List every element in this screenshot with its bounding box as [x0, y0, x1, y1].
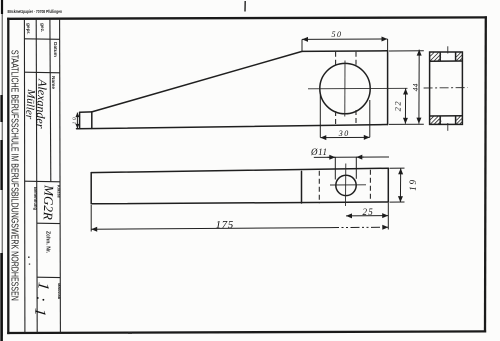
svg-text:50: 50 — [332, 30, 343, 39]
svg-text:Benennung: Benennung — [33, 187, 38, 210]
title block vertical line school-column — [24, 19, 60, 333]
bore circle D30 — [320, 63, 370, 113]
dimension 25 — [346, 215, 388, 217]
title block vertical line right edge — [59, 19, 62, 333]
ring inner top edge — [430, 60, 463, 62]
ring hole walls top — [439, 52, 441, 61]
svg-text:Müller: Müller — [23, 88, 37, 120]
left block right edge — [91, 112, 93, 128]
ring outer rect — [430, 52, 463, 124]
svg-text:gez.: gez. — [39, 23, 44, 32]
dimension 10 left block — [76, 113, 78, 129]
FRONT VIEW wedge part outline — [77, 51, 388, 129]
RING SECTION VIEW — [430, 52, 463, 124]
paper specks — [28, 257, 132, 334]
svg-text:19: 19 — [408, 178, 418, 191]
svg-text:25: 25 — [363, 207, 374, 217]
svg-text:STAATLICHE BERUFSSCHULE IM BER: STAATLICHE BERUFSSCHULE IM BERUFSBILDUNG… — [8, 50, 19, 301]
front view centerline vertical — [344, 61, 346, 117]
hidden D30 dashed tangent right — [369, 170, 371, 203]
wedge slope line — [92, 51, 302, 112]
extension line right shared 25/175 — [387, 203, 389, 230]
ring horizontal centerline dash-dot — [424, 87, 468, 89]
svg-text:Ø11: Ø11 — [310, 147, 328, 157]
dimension 30 below circle — [320, 95, 370, 138]
title block horizontal line below Klasse row — [37, 222, 61, 224]
boss edge line — [301, 171, 303, 203]
bar left edge — [90, 173, 92, 204]
svg-text:Maßstab: Maßstab — [57, 283, 62, 300]
left block left edge — [79, 112, 81, 128]
ring hatching — [430, 53, 463, 125]
bar bottom edge — [91, 202, 388, 204]
dimension 50 top — [302, 39, 388, 51]
dimension 22 — [404, 89, 406, 124]
extension line left for 175 — [90, 205, 92, 232]
title block vertical line benennung-column — [36, 19, 37, 333]
scanner left paper edge artifact — [1, 0, 4, 341]
registration tick mark top center — [244, 1, 246, 12]
dimension 175 — [91, 203, 388, 232]
left block top edge — [80, 111, 92, 113]
top edge — [302, 50, 388, 53]
hidden D30 dashed tangent left — [319, 170, 370, 203]
hole D11 circle top view — [336, 175, 356, 195]
hidden hole D11 dashed lines front view — [336, 52, 356, 125]
svg-text:Böckmetzpapier · 70708 Pfullin: Böckmetzpapier · 70708 Pfullingen — [8, 9, 63, 14]
title block horizontal line top of lower table — [25, 180, 60, 183]
TOP VIEW bar outline — [91, 168, 388, 204]
dimension 19 — [390, 168, 405, 202]
dimension 44 right — [389, 50, 424, 125]
svg-text:175: 175 — [216, 219, 234, 231]
svg-text:Datum: Datum — [52, 42, 58, 57]
right edge — [387, 51, 389, 125]
ring hole walls bottom — [439, 116, 441, 125]
svg-text:Zchn. Nr.: Zchn. Nr. — [45, 231, 51, 254]
bar right edge — [387, 168, 389, 202]
dimension D11 — [314, 157, 389, 180]
svg-text:30: 30 — [338, 129, 350, 138]
bottom edge — [77, 125, 388, 129]
top view hole centerline vertical — [330, 164, 366, 207]
title block horizontal line below gepr/gez labels — [24, 38, 59, 41]
svg-text:10: 10 — [72, 116, 78, 124]
top view hole centerline horizontal — [330, 184, 366, 186]
svg-text:44: 44 — [411, 83, 420, 91]
svg-text:22: 22 — [393, 100, 403, 112]
ring vertical centerline — [447, 46, 449, 131]
ring inner bottom edge — [430, 115, 463, 117]
bar top edge — [91, 168, 388, 172]
svg-text:Name: Name — [50, 76, 56, 89]
title block vertical line datum-column (upper part only) — [49, 19, 52, 182]
svg-text:MG2R: MG2R — [41, 184, 57, 220]
svg-text:gepr.: gepr. — [25, 23, 31, 34]
svg-text:1:1: 1:1 — [30, 281, 52, 324]
title block horizontal line below Datum row — [25, 71, 60, 74]
title block horizontal line below Zchn.Nr. row — [37, 276, 60, 278]
front view centerline horizontal — [308, 61, 408, 117]
